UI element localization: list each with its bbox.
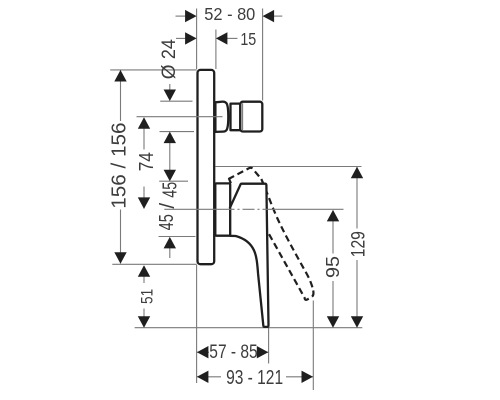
svg-text:45: 45 [159,182,182,198]
svg-text:156 / 156: 156 / 156 [108,122,130,208]
svg-text:57 - 85: 57 - 85 [209,342,257,363]
svg-text:45: 45 [155,214,178,230]
svg-text:/: / [156,203,179,209]
svg-text:129: 129 [347,231,369,257]
svg-text:15: 15 [240,29,256,49]
svg-text:51: 51 [139,289,157,304]
svg-text:Ø: Ø [159,64,180,79]
svg-text:24: 24 [159,39,180,59]
svg-text:74: 74 [136,152,158,171]
svg-text:95: 95 [322,256,343,278]
svg-text:52 - 80: 52 - 80 [204,4,255,24]
svg-text:93 - 121: 93 - 121 [226,366,283,389]
